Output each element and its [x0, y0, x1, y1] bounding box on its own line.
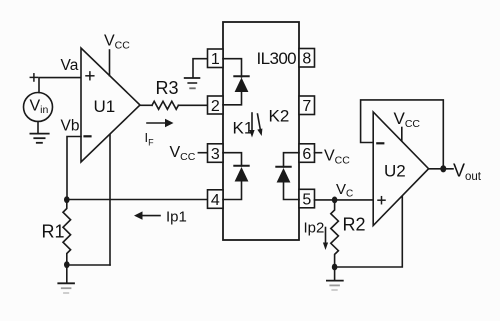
wire pin1 to ground	[193, 59, 208, 77]
pin 5	[299, 189, 315, 208]
resistor R1	[63, 200, 71, 265]
wire R2 bottom to ground	[334, 267, 336, 280]
wire photodiode K2 path (pin6 to pin5)	[284, 153, 300, 167]
plus polarity mark of Vin	[30, 74, 37, 81]
ground (below Vin)	[30, 134, 48, 143]
op-amp U2 minus input mark	[377, 142, 383, 144]
wire pin5 to U2 +in	[315, 199, 374, 201]
pin 8	[299, 49, 315, 68]
wire Vin bottom to ground	[37, 122, 39, 133]
wire pin4 to node	[67, 199, 208, 201]
op-amp U1	[81, 48, 140, 162]
arrow K1 light arrow 1	[251, 113, 253, 131]
photodiode PD1 (pins 3-4)	[234, 165, 248, 167]
svg-text:1: 1	[211, 51, 220, 68]
svg-text:Vb: Vb	[61, 117, 80, 134]
svg-text:5: 5	[302, 191, 311, 208]
svg-text:U2: U2	[384, 162, 406, 181]
wire R1 bottom to U1 V- rail	[67, 264, 110, 266]
svg-text:2: 2	[211, 98, 220, 115]
node junction (R2 bottom)	[332, 264, 338, 271]
pin 6	[299, 144, 315, 163]
resistor R2	[331, 200, 339, 267]
op-amp U2	[373, 112, 428, 226]
wire Vcc stub at pin 6	[315, 152, 322, 154]
op-amp U2 plus input mark	[378, 197, 385, 204]
wire U1 Vcc lead	[109, 50, 111, 76]
wire U1 V- to ground rail	[109, 135, 111, 265]
pin 7	[299, 96, 315, 115]
svg-text:Ip2: Ip2	[304, 219, 325, 236]
wire U2 feedback loop	[361, 100, 444, 169]
node junction (output Vout)	[440, 165, 446, 172]
wire U2 Vcc lead	[401, 128, 403, 141]
wire R2 bottom to U2 V-	[335, 195, 403, 267]
photodiode PD2 (pins 6-5)	[276, 166, 290, 168]
pin 4	[208, 190, 224, 209]
svg-text:4: 4	[211, 192, 220, 209]
arrow K1 light arrow 2	[258, 114, 261, 130]
svg-text:R1: R1	[42, 222, 65, 242]
wire photodiode K1 path (pin3 to pin4)	[223, 153, 242, 166]
svg-text:R2: R2	[343, 215, 366, 235]
op-amp U1 plus input mark	[86, 72, 94, 80]
pin 2	[208, 96, 224, 114]
svg-text:6: 6	[302, 146, 311, 163]
wire LED anode path (pin1 to diode to pin2)	[223, 59, 242, 77]
svg-text:Va: Va	[61, 57, 79, 74]
svg-text:K2: K2	[269, 107, 290, 126]
source Vin	[24, 93, 53, 122]
svg-text:Ip1: Ip1	[166, 209, 187, 226]
pin 1	[208, 49, 224, 68]
svg-text:8: 8	[302, 51, 311, 68]
IL300 body	[223, 22, 299, 240]
ground (pin 1)	[185, 78, 200, 88]
wire Vin top to U1 +in	[39, 78, 81, 93]
pin 3	[208, 144, 224, 163]
wire U1 output to R3	[140, 104, 152, 106]
wire R1 bottom to ground	[66, 265, 68, 282]
svg-text:R3: R3	[156, 78, 179, 98]
wire U2 output	[429, 168, 453, 170]
wire R3 to pin 2	[178, 104, 207, 106]
op-amp U1 minus input mark	[85, 135, 91, 137]
LED diode (pins 1-2)	[234, 75, 248, 77]
node junction (R1 bottom / ground)	[64, 261, 70, 268]
arrow Ip2	[325, 228, 327, 244]
arrow IF	[147, 122, 166, 124]
svg-text:3: 3	[211, 146, 220, 163]
svg-text:K1: K1	[233, 119, 254, 138]
svg-text:U1: U1	[94, 97, 116, 116]
resistor R3	[152, 101, 178, 109]
node junction (pin4 / R1 / Vb)	[64, 196, 70, 203]
ground (below R1)	[58, 283, 74, 293]
arrow Ip1	[141, 215, 160, 217]
wire U1 inverting input feedback (Vb)	[67, 137, 81, 200]
svg-text:7: 7	[302, 98, 311, 115]
ground (below R2)	[327, 281, 343, 290]
wire Vcc stub to pin 3	[198, 152, 207, 154]
node junction (pin5 / R2 / Vc)	[332, 197, 338, 204]
svg-text:IL300: IL300	[257, 49, 297, 68]
